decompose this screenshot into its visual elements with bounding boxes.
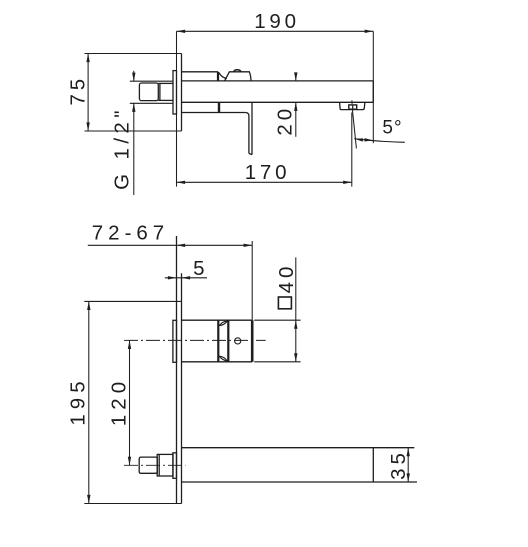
svg-text:5°: 5° — [382, 118, 402, 139]
svg-text:170: 170 — [245, 161, 291, 184]
svg-text:190: 190 — [254, 10, 300, 33]
svg-text:195: 195 — [67, 376, 90, 425]
svg-text:72-67: 72-67 — [92, 222, 169, 245]
svg-text:75: 75 — [66, 75, 89, 105]
svg-text:5: 5 — [193, 257, 204, 280]
svg-text:20: 20 — [274, 105, 297, 136]
svg-text:G 1/2": G 1/2" — [111, 106, 134, 190]
svg-text:40: 40 — [275, 263, 298, 294]
svg-text:35: 35 — [387, 449, 410, 480]
svg-text:120: 120 — [108, 377, 131, 426]
